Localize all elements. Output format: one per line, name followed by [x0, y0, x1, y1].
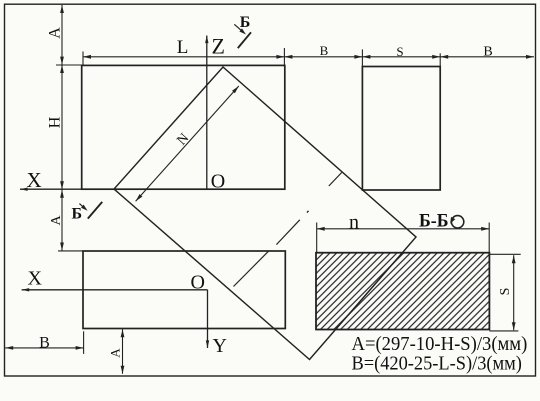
label A bottom (rotated) — [108, 348, 123, 358]
label B1 — [320, 43, 329, 58]
svg-text:В=(420-25-L-S)/3(мм): В=(420-25-L-S)/3(мм) — [352, 353, 522, 375]
rotated-view symbol (circle with arrow) — [450, 216, 464, 228]
extension line at x=440 (S-rect right) — [439, 53, 441, 67]
dimension H vertical line — [60, 65, 64, 189]
dimension B1 arrows — [284, 55, 362, 59]
dimension N diagonal line with arrows — [136, 86, 239, 201]
formula A — [352, 333, 528, 355]
extension tick at lower rect top-left — [58, 250, 83, 252]
hatch pattern def — [0, 0, 1, 1]
X axis lower view — [22, 288, 208, 291]
label L — [177, 37, 189, 58]
label Б top — [240, 14, 251, 31]
svg-text:O: O — [191, 272, 205, 294]
dimension L arrows — [83, 55, 284, 59]
dimension B2 arrows — [440, 55, 534, 59]
svg-text:А=(297-10-H-S)/3(мм): А=(297-10-H-S)/3(мм) — [352, 333, 528, 355]
svg-text:n: n — [349, 211, 359, 233]
rotated sheet outline (diamond) — [114, 67, 416, 360]
svg-text:O: O — [211, 171, 225, 193]
dimension S arrows — [362, 55, 440, 59]
svg-text:А: А — [108, 348, 123, 358]
label B2 — [483, 45, 492, 60]
label X lower — [28, 268, 43, 290]
label n — [349, 211, 359, 233]
svg-text:Б-Б: Б-Б — [419, 211, 449, 232]
X axis upper view — [20, 188, 285, 191]
section mark Б top: cutting stroke — [238, 32, 251, 48]
label A mid-left (rotated) — [49, 214, 64, 225]
extension line at x=284 (upper rect right) — [283, 48, 285, 67]
label O upper origin — [211, 171, 225, 193]
svg-text:B: B — [39, 335, 50, 352]
label N (rotated along line) — [174, 131, 192, 149]
dimension A mid-left vertical line — [60, 190, 64, 251]
top dimension chain line L-B-S-B — [83, 56, 534, 58]
svg-text:Y: Y — [213, 335, 227, 357]
label Y lower — [213, 335, 227, 357]
extension tick at upper rect top-left — [56, 64, 84, 66]
extension line at lower rect left x=83.6 — [83, 331, 85, 354]
dimension B bottom-left horizontal line — [5, 346, 83, 350]
label Б left — [72, 205, 83, 222]
S rectangle (side view) — [362, 67, 440, 191]
extension line at x=362 (S-rect left) — [361, 49, 363, 66]
extension line hatch rect right — [488, 223, 490, 254]
extension line hatch rect left — [316, 223, 318, 253]
dimension n horizontal line — [317, 227, 490, 231]
svg-text:X: X — [27, 168, 42, 192]
extension line hatch bottom-right — [489, 330, 518, 332]
label X upper — [27, 168, 42, 192]
dash-dot centerline of section trace — [234, 173, 342, 287]
svg-text:S: S — [396, 44, 403, 59]
section mark Б left: view arrow — [79, 204, 87, 211]
lower rectangle (top view) — [83, 251, 285, 329]
extension line hatch top-right — [489, 253, 520, 255]
dimension A top-left vertical line — [60, 5, 64, 65]
hatched section rectangle Б-Б — [316, 253, 489, 330]
dimension S right vertical line — [512, 255, 516, 330]
label B bottom-left — [39, 335, 50, 352]
svg-text:H: H — [47, 116, 64, 128]
svg-text:Z: Z — [212, 34, 225, 59]
formula B — [352, 353, 522, 375]
label A top-left (rotated) — [47, 27, 64, 39]
svg-text:Б: Б — [72, 205, 83, 222]
svg-text:B: B — [320, 43, 329, 58]
svg-text:B: B — [483, 45, 492, 60]
extension line at x=83 (upper rect left) — [82, 52, 84, 66]
svg-text:А: А — [47, 27, 64, 39]
svg-text:X: X — [28, 268, 43, 290]
upper rectangle (front view of sheet stack) — [82, 65, 285, 189]
section mark Б left: cutting stroke — [88, 202, 102, 219]
label H (rotated) — [47, 116, 64, 128]
label S right (rotated) — [498, 288, 513, 296]
label S top — [396, 44, 403, 59]
svg-text:L: L — [177, 37, 189, 58]
svg-text:Б: Б — [240, 14, 251, 31]
dimension A bottom vertical line — [121, 329, 125, 374]
Z axis vertical — [205, 36, 208, 190]
section mark Б top: view arrow — [234, 24, 246, 34]
label Б-Б section title — [419, 211, 449, 232]
svg-text:S: S — [498, 288, 513, 296]
label O lower origin — [191, 272, 205, 294]
label Z — [212, 34, 225, 59]
Y axis lower view — [206, 290, 209, 348]
svg-text:А: А — [49, 214, 64, 225]
